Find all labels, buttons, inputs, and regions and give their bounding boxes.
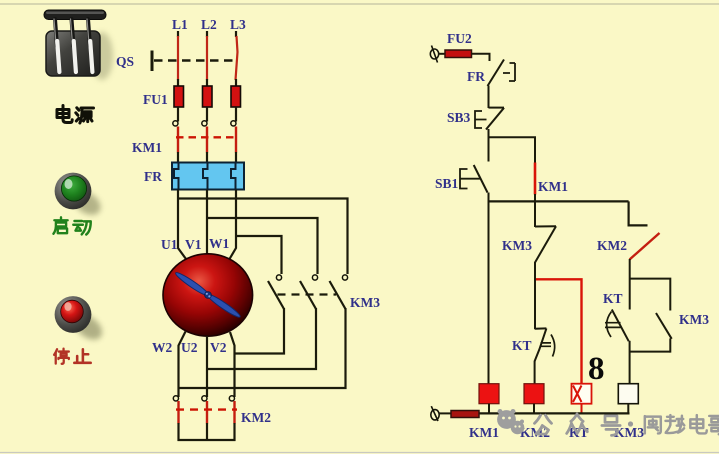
fuse FU1 pole 2 <box>203 86 213 107</box>
wire L1 top stub <box>177 31 179 37</box>
thermal contact FR blade <box>488 60 505 87</box>
wire FR to W1 <box>230 190 237 260</box>
wire KT coil to bus (red) <box>581 404 583 414</box>
terminal top (circle with slash) <box>430 49 438 59</box>
start button (green) <box>55 173 105 220</box>
pushbutton SB3 blade <box>486 108 504 130</box>
contactor KM3 pole 2 fixed contact <box>312 275 317 280</box>
contactor KM2 pole 2 fixed contact <box>202 396 207 401</box>
wire L1 into fuse <box>177 79 179 87</box>
pushbutton SB3 upper terminal <box>489 107 505 109</box>
wire branch to KM3 NO contact <box>630 279 671 311</box>
wire KM2 blade down <box>629 259 631 310</box>
coil KT (red cross box) <box>572 384 592 404</box>
wire L2 red drop through QS <box>206 36 208 80</box>
wire L3 into fuse <box>235 79 237 87</box>
bottom bus wire <box>477 412 630 414</box>
wire L1 red drop through QS <box>177 36 179 80</box>
wire L1 fuse to KM1 contact <box>177 107 179 122</box>
wire W2 motor to column <box>179 332 186 398</box>
watermark dot <box>628 421 633 426</box>
wire KM2 branch step <box>629 201 648 225</box>
svg-text:KM1: KM1 <box>538 179 568 194</box>
svg-text:W1: W1 <box>209 236 230 251</box>
svg-text:KT: KT <box>512 338 532 353</box>
svg-text:8: 8 <box>588 351 605 387</box>
fuse FU2 <box>445 50 472 58</box>
svg-text:KT: KT <box>603 291 623 306</box>
coil KM3 (white box) <box>618 384 638 404</box>
svg-text:KM1: KM1 <box>469 425 499 440</box>
contactor KM1 pole 3 fixed contact <box>231 121 236 126</box>
svg-text:KM3: KM3 <box>350 295 380 310</box>
wire FR to V1 <box>206 190 208 255</box>
wire rail down to KM1 coil <box>488 201 490 384</box>
contactor KM2 pole 1 moving contact <box>177 401 179 424</box>
contactor KM1 pole 1 moving contact <box>177 127 179 153</box>
contactor KM3 pole 3 blade <box>330 281 346 309</box>
contactor KM1 pole 3 moving contact <box>235 127 237 153</box>
svg-text:SB1: SB1 <box>435 176 459 191</box>
wire branch U1 to KM3 pole 3 <box>178 199 348 275</box>
motor propeller blade 2 <box>205 292 242 320</box>
contactor KM3 pole 1 fixed contact <box>276 275 281 280</box>
svg-text:L2: L2 <box>201 17 217 32</box>
bottom hairline <box>0 452 719 454</box>
wire L2 fuse to KM1 contact <box>206 107 208 122</box>
thermal relay FR heater 3 <box>231 163 236 190</box>
stop button (red) <box>55 296 107 345</box>
wire SB3 to junction <box>488 129 490 162</box>
coil KM1 <box>479 384 499 404</box>
fuse bottom (unlabeled) <box>451 411 479 418</box>
coil KM2 <box>524 384 544 404</box>
fuse FU1 pole 1 <box>174 86 184 107</box>
svg-text:KM3: KM3 <box>679 312 709 327</box>
wire L3 red drop through QS (switch blade) <box>236 36 238 80</box>
switch QS dashed linkage <box>154 59 237 61</box>
contact KM2 NO blade (red) <box>630 233 660 259</box>
wire L1 KM1 to FR <box>177 152 179 163</box>
knife-switch icon body <box>44 10 106 76</box>
contactor KM1 pole 1 fixed contact <box>173 121 178 126</box>
wire branch W1 to KM3 pole 1 <box>236 236 282 274</box>
contactor KM3 pole 2 blade <box>300 281 316 309</box>
wire L2 into fuse <box>206 79 208 87</box>
contactor KM2 pole 3 moving contact <box>233 401 235 424</box>
wire KM2 pole 1 to star bar <box>177 423 179 441</box>
contact KM3 NC branch wire <box>534 201 536 227</box>
wire KM1 coil to bus <box>488 404 490 414</box>
contactor KM2 pole 3 fixed contact <box>229 396 234 401</box>
contactor KM3 dashed linkage <box>278 293 337 295</box>
wire KT NO to KM2 coil <box>534 361 536 385</box>
contactor KM1 dashed linkage <box>176 136 238 138</box>
wire V2 motor to column <box>230 332 235 397</box>
svg-text:FR: FR <box>467 69 485 84</box>
wire KT NC to KM3 coil <box>629 341 631 385</box>
motor propeller blade 1 <box>174 270 211 298</box>
thermal contact FR trip symbol <box>503 63 515 81</box>
pushbutton SB1 actuator <box>460 169 480 189</box>
wire KM2 pole 2 to star bar <box>206 423 208 441</box>
contact KM3 NO blade (right) <box>656 313 672 339</box>
thermal relay FR box <box>172 163 244 190</box>
wire L3 KM1 to FR <box>235 152 237 163</box>
svg-text:KM2: KM2 <box>597 238 627 253</box>
contactor KM2 dashed linkage <box>176 408 237 410</box>
svg-text:SB3: SB3 <box>447 110 471 125</box>
wire branch V1 to KM3 pole 2 <box>207 218 318 274</box>
motor propeller hub <box>205 292 212 299</box>
contact KM3 NC blade <box>535 226 556 262</box>
label 启动 (start) <box>53 217 90 234</box>
svg-text:L1: L1 <box>172 17 188 32</box>
wire KM2 pole 3 to star bar <box>233 423 235 441</box>
wire FR to U1 <box>178 190 186 260</box>
wire red branch to KT coil <box>536 279 582 384</box>
contact KT NC delayed blade <box>612 310 629 342</box>
pushbutton SB3 actuator <box>475 111 487 128</box>
wire join KT NC and KM3 NO <box>630 351 671 353</box>
pushbutton SB1 blade <box>474 165 488 193</box>
svg-text:QS: QS <box>116 54 134 69</box>
knife-switch blades <box>57 41 92 72</box>
wire KM3 NO bottom <box>669 338 671 352</box>
terminal bottom (circle with slash) <box>431 410 439 420</box>
wire L3 top stub <box>235 31 237 37</box>
wire KM1 contact to rail <box>534 194 536 203</box>
wire SB1 to junction rail <box>488 193 490 203</box>
svg-text:KM3: KM3 <box>502 238 532 253</box>
wire L2 KM1 to FR <box>206 152 208 163</box>
contactor KM1 pole 2 moving contact <box>206 127 208 153</box>
wire KM2 coil to bus <box>533 404 535 414</box>
label 停止 (stop) <box>54 349 91 364</box>
svg-text:KM2: KM2 <box>241 410 271 425</box>
wire W2 to KM3 pole 3 bottom <box>179 308 346 388</box>
wire FU2 to FR contact <box>472 54 490 61</box>
contactor KM3 pole 3 fixed contact <box>342 275 347 280</box>
wire KM3 NC to KT junction <box>534 262 536 329</box>
contact KT NO delayed blade <box>535 328 547 361</box>
knife-switch rods <box>54 19 90 46</box>
wire terminal to FU2 <box>439 53 447 55</box>
svg-text:FU2: FU2 <box>447 31 472 46</box>
wire L3 fuse to KM1 contact <box>235 107 237 122</box>
wire U2 motor to column <box>206 336 208 397</box>
top hairline <box>0 3 719 5</box>
thermal relay FR heater 2 <box>203 163 208 190</box>
wire KM3 coil to bus <box>627 404 629 414</box>
contact KT NO delay symbol <box>541 335 555 357</box>
svg-text:V2: V2 <box>210 340 227 355</box>
wire terminal to bottom fuse <box>439 412 452 414</box>
wire FR to SB3 <box>488 86 490 109</box>
label 电源 (power) <box>57 106 94 124</box>
wire U2 to KM3 pole 2 bottom <box>207 308 316 369</box>
svg-text:FR: FR <box>144 169 162 184</box>
contactor KM2 pole 2 moving contact <box>206 401 208 424</box>
contactor KM1 pole 2 fixed contact <box>202 121 207 126</box>
svg-text:V1: V1 <box>185 237 202 252</box>
watermark text 公众号·闽越电哥 <box>534 414 719 435</box>
star point bar <box>178 439 236 441</box>
knife-switch icon shadow <box>91 32 113 80</box>
wire L2 top stub <box>206 31 208 37</box>
contact KM3 NC tick <box>535 225 556 227</box>
motor M sphere <box>163 254 253 336</box>
contact KM1 closed segment (red) <box>534 163 537 195</box>
contact KT NO delayed tick <box>535 327 547 329</box>
svg-text:U1: U1 <box>161 237 178 252</box>
svg-text:W2: W2 <box>152 340 173 355</box>
contactor KM3 pole 1 blade <box>268 281 284 309</box>
junction rail horizontal <box>489 200 629 202</box>
wire V2 to KM3 pole 1 bottom <box>235 308 285 354</box>
switch QS bar <box>151 51 154 72</box>
svg-text:KM1: KM1 <box>132 140 162 155</box>
contactor KM2 pole 1 fixed contact <box>173 396 178 401</box>
thermal relay FR heater 1 <box>174 163 179 190</box>
watermark logo <box>497 409 524 434</box>
svg-text:L3: L3 <box>230 17 246 32</box>
svg-text:U2: U2 <box>181 340 198 355</box>
contact KT NC delay symbol <box>605 312 621 338</box>
wire branch to KM1 hold contact <box>489 137 536 163</box>
fuse FU1 pole 3 <box>231 86 241 107</box>
svg-text:FU1: FU1 <box>143 92 168 107</box>
